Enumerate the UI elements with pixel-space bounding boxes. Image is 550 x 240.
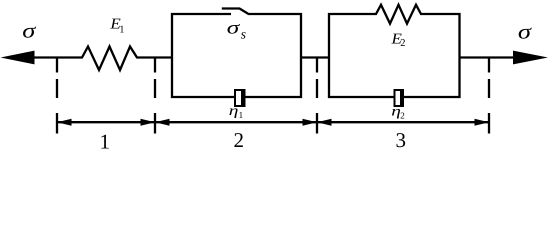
svg-text:1: 1 bbox=[239, 110, 244, 120]
svg-text:s: s bbox=[241, 26, 246, 41]
svg-text:1: 1 bbox=[100, 130, 111, 153]
svg-text:σ: σ bbox=[227, 18, 241, 38]
svg-text:1: 1 bbox=[119, 25, 124, 36]
svg-text:η: η bbox=[229, 104, 239, 119]
svg-text:2: 2 bbox=[400, 111, 405, 121]
svg-text:σ: σ bbox=[518, 20, 533, 44]
svg-text:σ: σ bbox=[22, 19, 37, 43]
svg-text:2: 2 bbox=[234, 128, 245, 152]
svg-text:2: 2 bbox=[400, 38, 405, 49]
svg-text:3: 3 bbox=[396, 128, 407, 152]
